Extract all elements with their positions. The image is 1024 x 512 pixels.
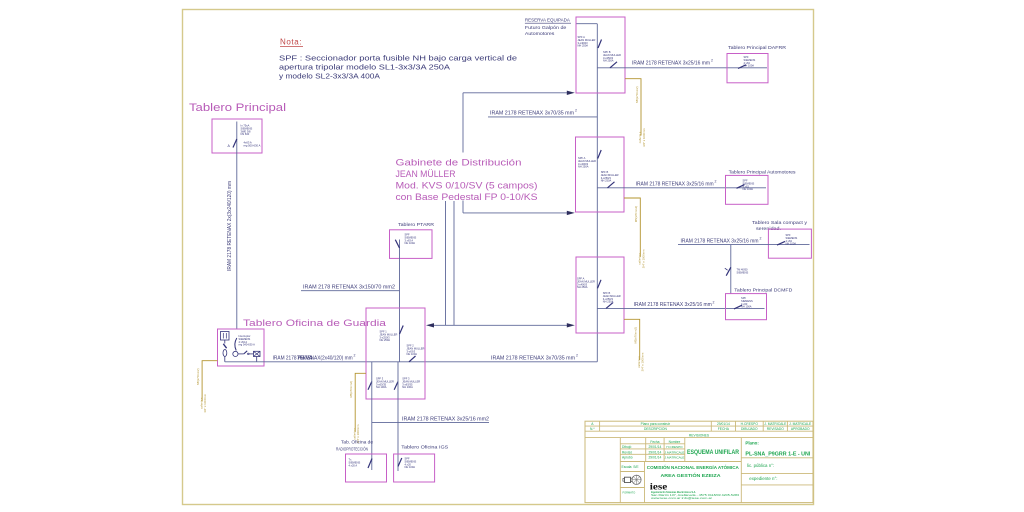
svg-text:PL-SNA_P9GRR 1-E - UNI: PL-SNA_P9GRR 1-E - UNI [745, 451, 810, 457]
svg-text:Plano:: Plano: [745, 441, 759, 446]
svg-text:Tablero Principal DCMFD: Tablero Principal DCMFD [734, 288, 793, 294]
svg-text:NH 100A: NH 100A [743, 187, 754, 191]
svg-text:NH 100A: NH 100A [405, 241, 416, 245]
svg-text:Nombre: Nombre [669, 440, 681, 444]
svg-text:RESERVA EQUIPADA: RESERVA EQUIPADA [525, 18, 571, 24]
svg-text:FORMATO: FORMATO [623, 491, 636, 495]
svg-text:www.iese.com.ar info@iese: www.iese.com.ar info@iese.com.ar [651, 496, 712, 500]
svg-text:FECHA: FECHA [718, 427, 730, 431]
svg-text:M5(x70mm2): M5(x70mm2) [196, 368, 200, 385]
svg-text:N.º: N.º [590, 427, 595, 431]
svg-text:M5(x70mm2): M5(x70mm2) [634, 327, 638, 344]
svg-text:NH 100A: NH 100A [741, 305, 752, 309]
svg-text:IRAM 2178 RETENAX 3x70/35 mm: IRAM 2178 RETENAX 3x70/35 mm [490, 110, 574, 116]
svg-text:IRAM 2178 RETENAX 3x25/16 mm: IRAM 2178 RETENAX 3x25/16 mm [681, 238, 759, 244]
svg-text:Tablero Oficina IGS: Tablero Oficina IGS [401, 445, 448, 451]
svg-text:NH 250A: NH 250A [601, 179, 612, 183]
svg-text:2: 2 [715, 180, 717, 184]
svg-text:SPF : Seccionador porta fusibl: SPF : Seccionador porta fusible NH bajo … [279, 54, 517, 63]
svg-text:con Base Pedestal FP 0-10/KS: con Base Pedestal FP 0-10/KS [396, 192, 538, 202]
svg-text:Revisó: Revisó [622, 450, 632, 454]
svg-text:REVISADO: REVISADO [767, 427, 784, 431]
svg-text:DIBUJADO: DIBUJADO [741, 427, 758, 431]
svg-text:Tab. Oficina de: Tab. Oficina de [341, 440, 373, 446]
svg-text:IRAM 2178 RETENAX 3x150/70 mm: IRAM 2178 RETENAX 3x150/70 mm2 [303, 284, 395, 290]
svg-text:2: 2 [354, 354, 356, 358]
svg-text:JEAN MÜLLER: JEAN MÜLLER [396, 169, 456, 179]
svg-text:4 x20 A: 4 x20 A [349, 463, 358, 467]
svg-text:Tablero PTARR: Tablero PTARR [398, 222, 435, 228]
svg-text:Fecha: Fecha [650, 440, 659, 444]
svg-text:NH 100A: NH 100A [786, 242, 797, 246]
svg-text:y modelo SL2-3x3/3A 400A: y modelo SL2-3x3/3A 400A [279, 72, 380, 81]
svg-text:COMISIÓN NACIONAL ENERGÍA ATÓM: COMISIÓN NACIONAL ENERGÍA ATÓMICA [647, 463, 740, 470]
svg-text:NH 100A: NH 100A [376, 385, 387, 389]
svg-text:Tablero Principal Automotores: Tablero Principal Automotores [729, 170, 797, 176]
svg-text:29/01/14: 29/01/14 [648, 456, 661, 460]
svg-text:Nota:: Nota: [280, 38, 302, 47]
svg-text:IRAM 2178 RETENAX 3x25/16 mm: IRAM 2178 RETENAX 3x25/16 mm [636, 181, 714, 187]
svg-text:IRAM 2178 RETENAX 2x(3x240/120: IRAM 2178 RETENAX 2x(3x240/120) mm [227, 181, 233, 271]
svg-text:M5(x70mm2): M5(x70mm2) [634, 206, 638, 223]
svg-text:NH 250A: NH 250A [578, 165, 589, 169]
svg-text:Plano para construir: Plano para construir [641, 422, 671, 426]
svg-text:2: 2 [760, 237, 762, 241]
svg-text:APROBADO: APROBADO [791, 427, 810, 431]
svg-text:NH 250A: NH 250A [380, 338, 391, 342]
svg-text:3/4" x 1000mm: 3/4" x 1000mm [203, 393, 207, 412]
svg-text:NH 100A: NH 100A [402, 385, 413, 389]
svg-text:75kVA: 75kVA [297, 355, 313, 361]
svg-text:J.MATRICALE: J.MATRICALE [665, 456, 685, 460]
svg-text:REVISIONES: REVISIONES [689, 433, 710, 437]
svg-text:NH 250A: NH 250A [578, 44, 589, 48]
svg-text:Escala: S/E: Escala: S/E [622, 465, 640, 469]
svg-text:Tablero Sala compact y: Tablero Sala compact y [752, 220, 808, 226]
svg-text:3/4" x 1000mm: 3/4" x 1000mm [641, 352, 645, 371]
svg-text:2: 2 [575, 109, 577, 113]
svg-text:SIEMENS: SIEMENS [737, 270, 749, 274]
svg-text:2: 2 [576, 354, 578, 358]
svg-text:IRAM 2178 RETENAX 3x25/16 mm2: IRAM 2178 RETENAX 3x25/16 mm2 [402, 417, 489, 423]
svg-text:Aprobó: Aprobó [622, 456, 633, 460]
svg-text:reg 500-630 A: reg 500-630 A [244, 144, 261, 148]
svg-text:J.MATRICALE: J.MATRICALE [665, 450, 685, 454]
svg-text:M5(x70mm2): M5(x70mm2) [349, 381, 353, 398]
svg-text:expediente n°:: expediente n°: [749, 476, 777, 481]
svg-text:Tablero Principal: Tablero Principal [189, 102, 286, 114]
svg-text:reg 540-630 A: reg 540-630 A [239, 343, 256, 347]
svg-text:IRAM 2178 RETENAX(2x40/120) mm: IRAM 2178 RETENAX(2x40/120) mm [273, 355, 353, 361]
svg-text:NH 100A: NH 100A [405, 465, 416, 469]
svg-text:Dibujó: Dibujó [622, 445, 632, 449]
svg-text:iese: iese [650, 481, 668, 491]
svg-text:J. MATRICALE: J. MATRICALE [789, 422, 812, 426]
svg-text:lic. pública n°:: lic. pública n°: [747, 463, 774, 468]
svg-text:Tablero Principal DAFRR: Tablero Principal DAFRR [728, 45, 787, 51]
svg-text:Automotores: Automotores [525, 31, 555, 37]
svg-text:Futuro Galpón de: Futuro Galpón de [525, 25, 567, 31]
svg-text:ESQUEMA UNIFILAR: ESQUEMA UNIFILAR [687, 450, 740, 456]
svg-text:IRAM 2178 RETENAX 3x70/35 mm: IRAM 2178 RETENAX 3x70/35 mm [491, 355, 575, 361]
svg-text:2: 2 [711, 59, 713, 63]
svg-text:H.CRESPO: H.CRESPO [741, 422, 759, 426]
svg-text:AREA GESTIÓN EZEIZA: AREA GESTIÓN EZEIZA [661, 471, 722, 478]
svg-text:DESCRIPCION: DESCRIPCION [644, 427, 668, 431]
svg-text:3/4" x 1000mm: 3/4" x 1000mm [641, 249, 645, 268]
svg-text:NH 100A: NH 100A [407, 352, 418, 356]
svg-text:Tablero Oficina de Guardia: Tablero Oficina de Guardia [243, 318, 387, 329]
svg-text:J. MATRICALE: J. MATRICALE [764, 422, 787, 426]
svg-text:29/01/14: 29/01/14 [648, 445, 661, 449]
svg-text:IRAM 2178 RETENAX 3x25/16 mm: IRAM 2178 RETENAX 3x25/16 mm [632, 61, 710, 67]
svg-text:29/01/14: 29/01/14 [717, 422, 730, 426]
svg-text:NS 630: NS 630 [241, 132, 250, 136]
svg-text:Mod. KVS 0/10/SV (5 campos): Mod. KVS 0/10/SV (5 campos) [396, 181, 538, 191]
svg-text:2: 2 [713, 300, 715, 304]
svg-text:H.CRESPO: H.CRESPO [666, 445, 683, 449]
svg-text:NH 250A: NH 250A [603, 59, 614, 63]
svg-text:29/01/14: 29/01/14 [648, 450, 661, 454]
svg-text:Gabinete de Distribución: Gabinete de Distribución [396, 158, 522, 168]
svg-text:apertura tripolar modelo SL1-3: apertura tripolar modelo SL1-3x3/3A 250A [279, 63, 450, 72]
svg-text:RADIOPROTECCIÓN: RADIOPROTECCIÓN [336, 446, 368, 453]
svg-text:IRAM 2178 RETENAX 3x25/16 mm: IRAM 2178 RETENAX 3x25/16 mm [634, 302, 712, 308]
svg-text:3/4" x 1000mm: 3/4" x 1000mm [642, 127, 646, 146]
svg-text:M5(x70mm2): M5(x70mm2) [635, 86, 639, 103]
svg-text:NH 250A: NH 250A [577, 285, 588, 289]
